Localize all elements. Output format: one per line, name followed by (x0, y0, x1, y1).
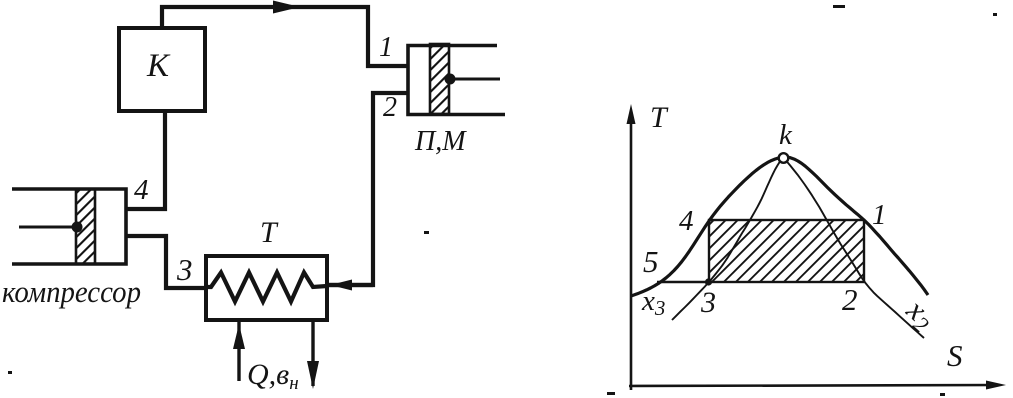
svg-text:К: К (146, 48, 171, 84)
critical point K (779, 153, 789, 163)
compressor cylinder (12, 189, 126, 264)
wire: compressor port 3 to T (126, 236, 208, 288)
svg-text:х2: х2 (897, 291, 942, 338)
scan speck dot (993, 13, 997, 16)
piston of compressor (hatched) (76, 189, 95, 264)
scan speck bottom mid (607, 392, 615, 395)
cycle rectangle 4-1-2-3 hatched (709, 220, 864, 282)
svg-text:компрессор: компрессор (2, 274, 141, 309)
svg-text:Q,вн: Q,вн (247, 358, 299, 394)
scan speck bottom left (8, 371, 12, 374)
svg-text:П,М: П,М (414, 126, 467, 157)
piston rod of П,М (449, 78, 500, 81)
rod pin dot of П,М (445, 74, 456, 85)
arrow on top wire (273, 1, 300, 14)
svg-text:Т: Т (260, 216, 279, 249)
box K (condenser) (119, 28, 205, 111)
svg-text:3: 3 (700, 286, 716, 319)
scan speck top right (833, 5, 845, 8)
svg-text:k: k (779, 119, 793, 151)
arrow into T (330, 280, 352, 291)
heat input arrow (up) (237, 322, 240, 381)
scan speck near wire (424, 231, 429, 234)
svg-text:5: 5 (643, 244, 659, 279)
line 5-3 (isotherm extension) (657, 281, 709, 283)
T axis (vertical) (630, 112, 633, 390)
svg-text:4: 4 (679, 205, 694, 237)
svg-text:Т: Т (650, 101, 669, 134)
svg-text:2: 2 (383, 92, 397, 123)
svg-text:х3: х3 (641, 285, 665, 320)
saturation dome left branch (631, 157, 783, 296)
svg-text:S: S (947, 338, 963, 373)
saturation dome right branch (783, 157, 928, 295)
svg-text:1: 1 (379, 32, 393, 63)
rod pin dot of compressor (72, 222, 83, 233)
curve x3 through point 3 (672, 157, 783, 320)
wire: K top to П,М port 1 (162, 7, 407, 66)
heating coil zigzag (206, 273, 327, 302)
wire: right vertical into T with arrow (327, 283, 373, 287)
piston machine П,М cylinder (408, 46, 505, 115)
curve x2 through point 2 (783, 157, 924, 338)
junction dot at point 3 (705, 278, 712, 285)
svg-text:1: 1 (872, 199, 887, 231)
wire: compressor port 4 to K bottom (126, 111, 165, 209)
S axis (horizontal) (629, 385, 998, 386)
piston of П,М (hatched) (430, 44, 449, 114)
scan speck bottom right (940, 393, 945, 396)
heat exchanger T box (206, 256, 327, 320)
svg-text:4: 4 (134, 174, 149, 206)
piston rod of compressor (19, 226, 76, 229)
wire: П,М port 2 to heat exchanger T (329, 93, 407, 285)
svg-text:3: 3 (176, 252, 193, 287)
svg-text:2: 2 (842, 282, 858, 317)
heat output arrow (down) (311, 322, 314, 386)
